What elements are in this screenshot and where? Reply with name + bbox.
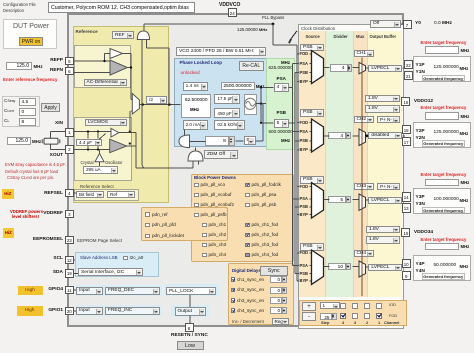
CH1 wire divider to output mux xyxy=(353,67,359,69)
wire VCO out xyxy=(256,103,266,105)
load capacitance box xyxy=(2,96,40,128)
Y0 frequency xyxy=(434,21,452,27)
unlocked status xyxy=(181,71,200,77)
pin 13 xyxy=(402,203,411,212)
ZDM stub1 xyxy=(192,161,194,168)
checkbox pdn_pll_vco xyxy=(194,183,199,188)
wire pin20 stub xyxy=(74,310,76,312)
feedback post divider combo xyxy=(244,136,256,145)
step down button xyxy=(302,312,316,322)
EVM note line3 xyxy=(7,175,54,180)
junction REFP xyxy=(103,60,105,62)
wire Output to RESETN pin xyxy=(189,316,191,324)
CH1 mux input label PSA xyxy=(300,61,308,66)
Y1 enter target frequency xyxy=(421,40,467,45)
checkbox ch4_sync_en xyxy=(231,308,236,313)
CH4 divider value box xyxy=(328,263,346,271)
checkbox pdn_ref xyxy=(145,212,150,217)
ZDM up stub xyxy=(195,147,197,151)
checkbox pdn_ch2 xyxy=(202,233,207,238)
CL input xyxy=(19,118,36,126)
interrupt row band xyxy=(164,284,220,296)
pin 3 xyxy=(65,210,74,219)
FOD step checkbox ch3 xyxy=(352,313,358,319)
CH3 wire divider to output mux xyxy=(353,199,359,201)
post divider block xyxy=(266,58,295,150)
differential input sub-box xyxy=(74,45,131,89)
interrupt out band xyxy=(171,305,209,317)
pin 20 xyxy=(65,307,74,316)
VDDO12 label xyxy=(414,99,433,105)
reference select mux xyxy=(132,94,139,115)
RESETN Low button xyxy=(177,341,204,351)
junction CH2 disabled xyxy=(365,134,368,137)
wire pin12 stub xyxy=(74,259,75,261)
CH4 mux input label FOD xyxy=(300,250,309,255)
wire ZDM feedback vertical xyxy=(141,40,143,166)
wire bypass down xyxy=(272,24,274,45)
channel number 4 xyxy=(342,321,344,326)
pin 12 xyxy=(65,256,74,265)
Y4 target input xyxy=(425,243,459,251)
C2 combo xyxy=(214,108,240,118)
IOD step combo xyxy=(320,302,340,309)
reference output dome xyxy=(137,31,149,40)
junction VCO out xyxy=(260,102,263,105)
checkbox i2c_a0 xyxy=(123,256,128,261)
reference title xyxy=(76,29,98,35)
High badge GPIO4 xyxy=(18,286,43,295)
CStray input xyxy=(19,98,36,106)
FOD step spinner xyxy=(332,313,337,320)
wire input amp output bus xyxy=(123,53,132,55)
CStray label xyxy=(4,99,15,105)
checkbox pdn_ch4 xyxy=(202,253,207,258)
CH3 output mux xyxy=(359,194,366,210)
checkbox pdn_ch1 xyxy=(202,223,207,228)
LVCMOS combo xyxy=(85,119,127,127)
Sync button xyxy=(260,266,288,276)
divider column xyxy=(326,31,354,297)
Y0 label xyxy=(415,21,421,27)
CH bus vertical xyxy=(361,57,363,296)
wire mux out to /2 xyxy=(139,104,180,106)
Y1 output box xyxy=(413,56,472,82)
pin 18 xyxy=(402,125,411,134)
wire crystal to XIN xyxy=(50,132,52,139)
PFD frequency box xyxy=(181,94,211,118)
wire dome divided input xyxy=(145,40,147,49)
GPIO1 pin label xyxy=(33,308,63,314)
Apply button xyxy=(41,103,60,113)
xtal amp U2 xyxy=(110,139,127,153)
pin 9 xyxy=(402,271,411,280)
pin 4 xyxy=(65,189,74,198)
wire pin4 stub xyxy=(74,192,76,194)
Channel label xyxy=(384,321,399,326)
charge pump combo xyxy=(183,120,208,130)
junction pfd in xyxy=(168,103,171,106)
Crystal label xyxy=(81,160,94,165)
phase locked loop block xyxy=(174,58,267,147)
High badge GPIO1 xyxy=(17,306,43,316)
FOD step value xyxy=(320,313,332,320)
CH1 wire buffer to pins xyxy=(402,67,405,69)
IOD step checkbox ch3 xyxy=(352,303,358,309)
interrupt direction combo xyxy=(175,307,206,316)
PSB MHz label xyxy=(281,138,290,143)
REF select combo xyxy=(112,31,134,40)
GPIO1 function combo xyxy=(105,307,160,315)
IOD label xyxy=(389,303,396,308)
XOUT pin label xyxy=(33,153,63,159)
oscillator current combo xyxy=(83,166,118,174)
CH1 source combo xyxy=(300,44,324,52)
checkbox pdn_pll_vcobuf xyxy=(194,193,199,198)
CH1 mux input stubs xyxy=(292,63,299,65)
ch2_sync_en delay spinner xyxy=(282,287,287,294)
reference frequency input xyxy=(6,62,32,70)
EEPROM Page Select label xyxy=(77,238,122,244)
checkbox pdn_pll_psb xyxy=(245,203,250,208)
CH2 source mux xyxy=(312,119,324,152)
IOD step checkbox ch1 xyxy=(376,303,382,309)
CH3 divider spinner xyxy=(346,196,351,204)
CH3 divider value box xyxy=(328,196,346,204)
wire 4.4pF taps xyxy=(87,132,89,139)
input amp U1 xyxy=(110,60,127,75)
VDDO4 combo xyxy=(366,236,400,244)
CH2 select combo xyxy=(354,116,374,123)
Y3 target input xyxy=(425,179,459,187)
CH1 output buffer combo xyxy=(368,65,402,72)
CH2 mux input label PSA xyxy=(300,129,308,134)
junction ref out xyxy=(141,103,144,106)
VCO circle symbol xyxy=(245,98,256,109)
VDDREF warning line2 xyxy=(12,214,39,219)
ZDM dome xyxy=(188,151,203,161)
CH2 output mux xyxy=(359,129,366,146)
pin 11 xyxy=(65,286,74,295)
output buffer column xyxy=(368,31,402,297)
enter reference frequency note xyxy=(3,77,57,82)
CLext label xyxy=(4,109,14,115)
source column xyxy=(299,31,326,297)
CH2 divider value box xyxy=(328,132,346,140)
CH2 wire mux to divider xyxy=(324,135,330,137)
CH4 output mux xyxy=(359,261,366,277)
CH1 mux input label BYP xyxy=(300,79,308,84)
ch3_sync_en delay value xyxy=(270,297,283,304)
CH1 mux input label FOD xyxy=(300,51,309,56)
ch2_sync_en delay value xyxy=(270,287,283,294)
pin 19 xyxy=(65,269,74,278)
Reference Select label xyxy=(80,184,114,189)
bypass switch xyxy=(290,31,298,41)
junction XOUT tap xyxy=(129,142,131,144)
oscillator bias stub xyxy=(99,162,101,166)
crystal oscillator sub-box xyxy=(74,117,132,181)
CH4 source mux xyxy=(312,250,324,284)
wire pin11 stub xyxy=(74,289,76,291)
variable cap arrow xyxy=(99,134,106,140)
CH3 source combo xyxy=(300,176,324,184)
Y1 target input xyxy=(425,46,459,54)
bypass frequency label xyxy=(237,27,267,32)
ch1_sync_en delay spinner xyxy=(282,276,287,283)
ch4_sync_en delay value xyxy=(270,307,283,314)
reference select sub-box xyxy=(74,189,139,201)
CH2 divider spinner xyxy=(346,132,351,140)
Output Buffer header xyxy=(370,34,397,39)
wire bypass to BYP bus xyxy=(273,44,297,46)
CH3 mux input label BYP xyxy=(300,212,308,217)
DUT power box xyxy=(3,19,57,49)
HiZ badge REFSEL xyxy=(2,189,14,199)
PSA frequency xyxy=(269,65,293,71)
DUT Power title xyxy=(13,23,49,31)
wire REFP to input amp xyxy=(72,60,110,62)
FOD label xyxy=(389,314,397,319)
Y0 output combo xyxy=(370,20,401,28)
wire dome to bypass xyxy=(143,24,145,31)
i2c_a0 label xyxy=(130,255,144,261)
PLL title xyxy=(180,60,223,66)
ch4_sync_en delay spinner xyxy=(282,307,287,314)
HiZ badge EEPROMSEL xyxy=(3,228,15,238)
config file label xyxy=(3,2,36,7)
loop BW combo xyxy=(183,82,208,91)
PSA label xyxy=(277,76,286,82)
Y3 enter target frequency xyxy=(421,172,467,177)
Block Power Downs title xyxy=(194,175,236,180)
crystal Y1 symbol xyxy=(44,138,58,144)
Inc/Decrement Reg combo xyxy=(272,318,290,326)
CH4 mux input label BYP xyxy=(300,278,308,283)
PLL Bypass label xyxy=(262,15,284,20)
checkbox pdn_pll_vcobuf2 xyxy=(194,203,199,208)
PSA MHz label xyxy=(281,60,290,65)
reference power downs box xyxy=(141,207,228,241)
VDDO1 combo xyxy=(365,95,400,103)
FOD step checkbox ch2 xyxy=(364,313,370,319)
Digital Delays title xyxy=(232,268,261,273)
CL label xyxy=(4,119,9,125)
Y2 enter target frequency xyxy=(421,105,467,110)
channel number 1 xyxy=(378,321,380,326)
pin 23 xyxy=(65,236,74,245)
CH3 polarity combo xyxy=(377,183,400,190)
wire XIN xyxy=(72,131,111,133)
CH2 source combo xyxy=(300,109,324,117)
pin 24 VDDVCO xyxy=(228,8,238,17)
SCL pin label xyxy=(33,256,63,262)
FOD step checkbox ch4 xyxy=(340,313,346,319)
CH2 wire to buffer xyxy=(366,135,369,137)
GPIO1 row band xyxy=(75,305,162,317)
CH2 mux input label BYP xyxy=(300,147,308,152)
pin 1 xyxy=(65,128,74,137)
wire xtal amp outputs xyxy=(119,132,136,134)
RESETN / SYNC label xyxy=(171,333,208,339)
PSB divider combo xyxy=(274,119,289,128)
CH4 output buffer combo xyxy=(368,264,402,271)
junction amp out xyxy=(130,66,132,68)
EEPROMSEL pin label xyxy=(29,237,63,243)
CH1 source mux xyxy=(312,51,324,84)
channel number 2 xyxy=(366,321,368,326)
GPIO4 direction combo xyxy=(76,287,103,295)
CH4 wire buffer to pins xyxy=(402,266,405,268)
block power downs box xyxy=(191,174,294,263)
wire off combo to pin7 xyxy=(401,23,403,25)
GPIO1 direction combo xyxy=(76,307,103,315)
Ref combo xyxy=(107,191,135,199)
CH3 wire to buffer xyxy=(366,199,369,201)
CH4 mux input stubs xyxy=(292,265,299,267)
CH1 wire mux to divider xyxy=(324,67,330,69)
CH1 divider spinner xyxy=(348,64,353,72)
CH4 wire to buffer xyxy=(366,266,369,268)
Source header xyxy=(306,34,320,39)
wire PSB bus xyxy=(289,122,295,124)
feedback divider spinner xyxy=(229,136,236,146)
VDDO3 combo xyxy=(366,226,400,234)
input buffer amp small xyxy=(110,49,123,59)
Y3 generated frequency box xyxy=(422,207,466,214)
crystal frequency input xyxy=(7,137,31,145)
checkbox pdn_pll_fodclk xyxy=(245,183,250,188)
Y4 generated frequency box xyxy=(422,273,466,280)
wire XOUT xyxy=(72,149,110,151)
Oscillator label xyxy=(105,160,122,165)
ch3_sync_en delay spinner xyxy=(282,297,287,304)
Mux header xyxy=(356,34,364,39)
CH3 select combo xyxy=(354,183,374,190)
checkbox pdn_pll_lockdet xyxy=(145,234,150,239)
Slave Address LSB label xyxy=(80,255,118,260)
step up button xyxy=(302,302,316,312)
CH3 wire buffer to pins xyxy=(402,199,405,201)
xtal buffer small xyxy=(111,128,119,137)
Y2 target input xyxy=(425,112,459,120)
GPIO4 row band xyxy=(75,285,162,297)
pin 5 xyxy=(65,57,74,66)
config file input xyxy=(48,2,195,13)
ZDM combo xyxy=(204,150,238,159)
CH3 mux input label PSB xyxy=(300,204,308,209)
checkbox pdn_pll_psa xyxy=(245,193,250,198)
VDDREF pin label xyxy=(33,211,63,217)
pin 17 xyxy=(402,137,411,146)
IOD step checkbox ch2 xyxy=(364,303,370,309)
Y3 output box xyxy=(413,188,472,214)
checkbox pdn_pll_psfb xyxy=(194,213,199,218)
Step label xyxy=(321,321,329,326)
wire PLL_LOCK to Output xyxy=(189,295,191,307)
clock distribution box xyxy=(298,24,404,329)
CH3 output buffer combo xyxy=(368,197,402,204)
wire crystal to XOUT xyxy=(50,144,52,150)
EVM note line2 xyxy=(5,169,58,174)
CH4 mux input label PSA xyxy=(300,263,308,268)
SDA pin label xyxy=(33,270,63,276)
CH3 mux input label PSA xyxy=(300,196,308,201)
crystal cap combo xyxy=(76,139,102,147)
pin 10 xyxy=(402,259,411,268)
pin 7 xyxy=(403,20,412,29)
Clock Distribution title xyxy=(301,26,335,31)
checkbox ch2_sync_en xyxy=(231,288,236,293)
pin 21 xyxy=(404,71,413,80)
CH4 wire divider to output mux xyxy=(353,266,359,268)
REFN pin label xyxy=(33,68,63,74)
XIN pin label xyxy=(33,121,63,127)
CH1 divider value box xyxy=(330,64,348,72)
reference frequency MHz xyxy=(34,64,43,69)
VDDREF warning line1 xyxy=(10,209,43,214)
wire pin19 stub xyxy=(74,272,78,274)
C1 combo xyxy=(214,94,240,104)
interrupt function combo xyxy=(166,287,216,296)
CH2 polarity combo xyxy=(377,116,400,123)
CH1 mux input label PSB xyxy=(300,70,308,75)
VCO frequency box xyxy=(221,82,255,90)
CH4 source combo xyxy=(300,243,324,251)
step control panel xyxy=(299,300,407,326)
digital delays box xyxy=(228,263,294,326)
wire BYP bus xyxy=(296,45,298,281)
pin 8 RESETN xyxy=(185,323,194,332)
checkbox pdn_ch2_fod xyxy=(245,233,250,238)
CLext input xyxy=(19,108,36,116)
VDDVCO net label xyxy=(219,2,240,8)
wire xo to mux in2 xyxy=(129,111,131,132)
GPIO4 pin label xyxy=(33,287,63,293)
pin 22 xyxy=(404,60,413,69)
CH4 divider spinner xyxy=(346,263,351,271)
CH2 mux input label PSB xyxy=(300,138,308,143)
CH3 source mux xyxy=(312,183,324,218)
Y2 generated frequency box xyxy=(422,140,466,147)
wire feedback path xyxy=(183,130,185,135)
VDDO2 combo xyxy=(365,105,400,113)
loop R combo xyxy=(214,120,245,130)
Divider header xyxy=(334,34,348,39)
pin 15 xyxy=(401,228,410,237)
CH2 mux input stubs xyxy=(292,131,299,133)
CH3 wire mux to divider xyxy=(324,199,330,201)
crystal frequency MHz xyxy=(32,139,41,144)
pin 14 xyxy=(402,192,411,201)
PSA PSB feed wires xyxy=(260,88,262,123)
VCO oscillator symbol box xyxy=(244,94,258,115)
junction PLL bypass xyxy=(272,23,275,26)
VCO mode combo xyxy=(176,47,266,56)
ref divide combo xyxy=(146,96,167,104)
ch1_sync_en delay value xyxy=(270,276,283,283)
CH2 mux input label FOD xyxy=(300,120,309,125)
checkbox pdn_pll_pfd xyxy=(145,223,150,228)
AC-Differential combo xyxy=(84,79,127,87)
checkbox ch3_sync_en xyxy=(231,298,236,303)
REFSEL pin label xyxy=(33,191,63,197)
CH2 wire buffer to pins xyxy=(402,135,405,137)
VCO frequency MHz xyxy=(256,84,265,89)
GPIO4 function combo xyxy=(105,287,160,295)
CH1 wire to buffer xyxy=(366,67,369,69)
junction XIN tap xyxy=(129,130,131,132)
